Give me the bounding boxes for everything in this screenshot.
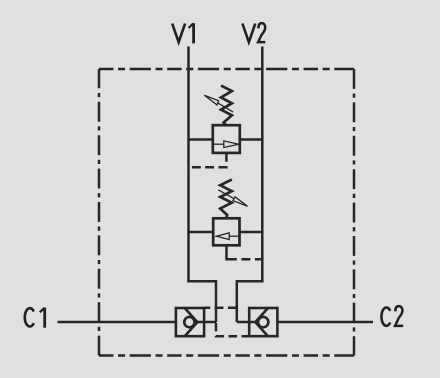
pilot line (dashed) from V2 branch to check valve CV1 <box>204 306 237 309</box>
relief valve RV2 pilot line (dashed) <box>227 245 263 259</box>
wire V1 vertical line <box>187 47 190 282</box>
enclosure boundary left <box>98 69 101 356</box>
wire relief valve RV1 left port <box>189 138 213 141</box>
relief valve RV2 internal flow arrow <box>217 233 240 240</box>
enclosure boundary (dash-dot box) top <box>99 68 354 71</box>
relief valve RV1 adjustment arrow <box>204 95 233 112</box>
relief valve RV1 spring <box>221 86 232 126</box>
check valve CV2 ball <box>258 317 268 327</box>
relief valve RV2 adjustment arrow <box>218 190 247 207</box>
relief valve RV1 body square <box>213 125 240 153</box>
relief valve RV2 body square <box>213 218 239 245</box>
check valve CV1 body square <box>176 308 204 336</box>
wire C1 port line <box>58 321 176 324</box>
port label C2 <box>381 306 403 326</box>
wire relief valve RV2 right port <box>240 231 263 234</box>
relief valve RV2 spring <box>220 180 232 219</box>
enclosure boundary bottom <box>99 354 354 357</box>
wire check valve CV2 left port <box>237 321 256 324</box>
port label V1 <box>172 23 193 43</box>
port label V2 <box>242 23 265 42</box>
wire check valve CV1 right port <box>197 321 216 324</box>
wire V2 branch elbow to check valve CV2 <box>237 280 262 322</box>
relief valve RV1 pilot line (dashed) <box>189 153 227 167</box>
wire V1 branch elbow to check valve CV1 <box>189 280 217 322</box>
wire C2 port line <box>277 321 373 324</box>
enclosure boundary right <box>353 69 356 356</box>
port label C1 <box>25 308 45 328</box>
pilot line (dashed) from V1 branch to check valve CV2 <box>216 323 249 337</box>
check valve CV2 seat <box>255 308 268 336</box>
check valve CV1 ball <box>184 317 194 327</box>
wire V2 vertical line <box>261 47 264 282</box>
wire relief valve RV2 left port <box>189 231 214 234</box>
check valve CV2 body square <box>249 308 277 336</box>
check valve CV1 seat <box>185 308 198 336</box>
relief valve RV1 internal flow arrow <box>213 141 239 148</box>
wire relief valve RV1 right port <box>240 138 262 141</box>
